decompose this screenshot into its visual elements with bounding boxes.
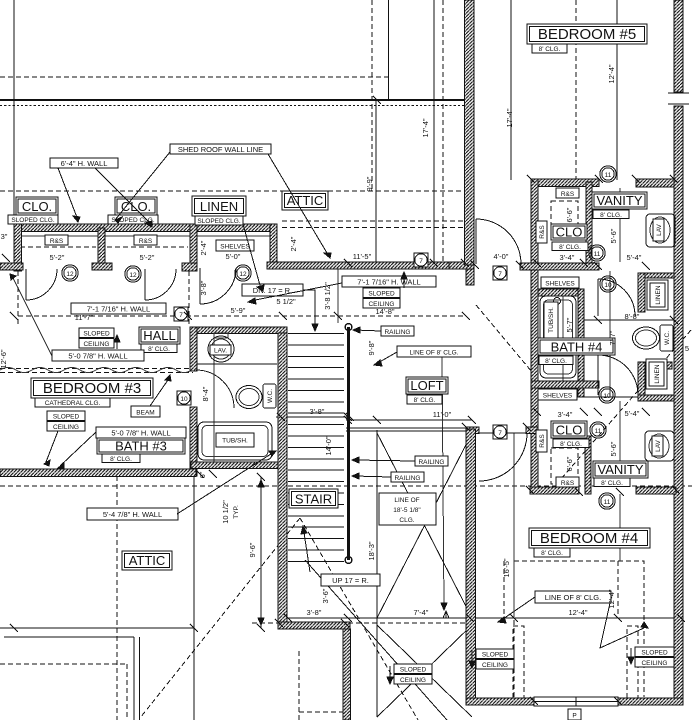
keynote 12 c: [235, 265, 251, 281]
wall clo bottom: [520, 263, 599, 270]
wall under tub bath3: [191, 462, 278, 469]
label BEDROOM 3: [31, 378, 153, 398]
door bath4 wc upper: [598, 279, 635, 316]
svg-text:5'-6": 5'-6": [609, 441, 618, 456]
svg-text:12: 12: [129, 272, 137, 279]
wire garage rect side: [133, 637, 135, 720]
svg-text:7'-1 7/16" H. WALL: 7'-1 7/16" H. WALL: [87, 305, 150, 314]
keynote 11 top: [600, 166, 616, 182]
svg-text:3'-8": 3'-8": [310, 407, 325, 416]
svg-text:10: 10: [603, 393, 611, 400]
dashed closet flank x189: [188, 271, 190, 327]
wall outer right upper: [674, 0, 683, 92]
svg-text:CEILING: CEILING: [482, 662, 508, 669]
leader 5-4wall: [177, 452, 274, 514]
dashed shelf rect clo bottom: [551, 448, 578, 484]
svg-text:RAILING: RAILING: [384, 329, 410, 336]
dashed vertical x117: [116, 476, 118, 720]
svg-text:18'-3": 18'-3": [367, 541, 376, 560]
wall stair west: [278, 333, 287, 623]
svg-text:R&S: R&S: [539, 434, 546, 448]
wire leader dn nosing: [302, 290, 315, 331]
wall stair bottom: [278, 622, 350, 629]
svg-text:8' CLG.: 8' CLG.: [539, 46, 561, 53]
label RAILING 2: [415, 456, 448, 466]
wall hall north seg1: [0, 263, 23, 270]
label CLO.1: [16, 197, 58, 215]
leader 5-0b: [60, 432, 96, 466]
label R&S 2: [134, 235, 157, 245]
wire dim x261: [260, 477, 262, 628]
svg-text:VANITY: VANITY: [597, 193, 643, 208]
svg-text:5'-4": 5'-4": [627, 253, 642, 262]
svg-text:9'-9": 9'-9": [365, 176, 374, 191]
svg-text:BEDROOM #4: BEDROOM #4: [540, 530, 638, 547]
label 8 CLG clo2: [553, 439, 589, 448]
keynote 11 mid: [589, 245, 605, 261]
keynote 7 bedroom4: [493, 425, 507, 439]
wall bottom right of window: [618, 698, 683, 705]
label BEDROOM 4: [529, 528, 650, 548]
keynote 7 loft: [414, 253, 428, 267]
leader 6-4 b: [95, 168, 152, 225]
label CATHEDRAL CLG: [35, 398, 110, 407]
label 8 CLG b5: [532, 44, 567, 53]
wire dim x214: [213, 332, 215, 468]
wire dim ext x514: [513, 433, 515, 617]
wire wc line bath4: [584, 319, 674, 321]
wall closet divider: [98, 228, 105, 264]
svg-text:8' CLG.: 8' CLG.: [148, 346, 170, 353]
wall tub partition: [578, 289, 584, 397]
svg-text:5'-2": 5'-2": [140, 253, 155, 262]
svg-text:R&S: R&S: [561, 480, 575, 487]
wire dim line y628: [0, 627, 194, 629]
label LOFT: [406, 377, 448, 394]
dashed chase left: [513, 626, 524, 699]
door hall-bath4 corridor: [476, 219, 521, 264]
svg-text:LINE OF 8' CLG.: LINE OF 8' CLG.: [410, 350, 459, 357]
dashed dim line y316: [18, 315, 466, 317]
svg-text:SLOPED: SLOPED: [83, 331, 110, 338]
LEADERS: [10, 152, 648, 684]
svg-text:P: P: [572, 713, 576, 720]
svg-text:5'-0 7/8" H. WALL: 5'-0 7/8" H. WALL: [68, 352, 127, 361]
dashed line y227: [282, 227, 466, 229]
wire vertical x388: [388, 0, 390, 100]
dashed roof hip right: [300, 518, 418, 720]
svg-text:LINE OF 8' CLG.: LINE OF 8' CLG.: [545, 593, 601, 602]
leader lineof b4 right: [600, 603, 644, 648]
wire dim line y417 stair: [276, 416, 350, 418]
svg-text:8' CLG.: 8' CLG.: [559, 244, 581, 251]
wall above shelves2: [531, 381, 599, 388]
svg-text:12'-4": 12'-4": [607, 589, 616, 608]
svg-text:CEILING: CEILING: [400, 677, 426, 684]
svg-text:CLO.: CLO.: [22, 199, 52, 214]
leader lineof loft: [376, 352, 397, 364]
svg-text:2'-4": 2'-4": [289, 236, 298, 251]
dashed line y105: [0, 105, 474, 107]
wall closet back top: [14, 224, 277, 232]
svg-text:7'-7": 7'-7": [608, 330, 617, 345]
dashed x127: [126, 664, 128, 720]
label ATTIC bottom: [122, 551, 172, 570]
keynote 10 bath4: [600, 276, 616, 292]
label SHED ROOF WALL LINE: [170, 144, 271, 154]
svg-text:LINE OF: LINE OF: [394, 497, 419, 504]
svg-text:SLOPED: SLOPED: [400, 667, 427, 674]
wire wc line2 bath4: [584, 396, 638, 398]
leader arrow up stair: [301, 526, 307, 534]
wire leader line-of-clg loft: [442, 357, 444, 610]
label SLOPED CEILING loft: [363, 288, 400, 298]
label 8 CLG v2: [594, 478, 630, 487]
dashed line y486: [0, 485, 692, 487]
label CLO top: [551, 224, 587, 240]
svg-text:11: 11: [605, 172, 612, 179]
dashed ext x618: [617, 561, 619, 617]
label SLOPED CEILING b4L: [476, 649, 514, 659]
svg-text:3": 3": [1, 232, 8, 241]
wall hall west upper: [190, 327, 197, 371]
label R&S vanity1: [556, 188, 579, 198]
label BATH 4: [538, 338, 615, 355]
svg-text:BEDROOM #5: BEDROOM #5: [538, 26, 636, 43]
wire left vertical line: [13, 0, 15, 226]
svg-text:SLOPED: SLOPED: [368, 291, 395, 298]
keynote 11 bottom: [599, 493, 615, 509]
svg-text:R&S: R&S: [561, 191, 575, 198]
svg-text:12: 12: [239, 271, 247, 278]
keynote 12 a: [62, 265, 78, 281]
svg-text:6'-4" H. WALL: 6'-4" H. WALL: [61, 159, 108, 168]
svg-text:17'-4": 17'-4": [505, 108, 514, 127]
dashed clg line bath4: [476, 305, 532, 372]
svg-text:CLO: CLO: [556, 225, 583, 240]
wire vertical x434: [433, 0, 435, 263]
fixture lav vanity1: [646, 214, 675, 247]
window bottom: [534, 697, 618, 706]
wire dim x610: [609, 271, 611, 397]
fixture lav hall: [208, 336, 234, 362]
wire stair up arrow: [303, 526, 310, 572]
label DN 17 R: [242, 284, 303, 296]
fixture linen2: [646, 359, 667, 389]
svg-text:10: 10: [180, 396, 188, 403]
arrow dim x261 bottom: [258, 618, 264, 625]
svg-text:5'-2": 5'-2": [50, 253, 65, 262]
label 8 CLG b4: [534, 548, 570, 557]
leader lineof b4 left: [500, 597, 535, 621]
wall shelves bottom: [538, 289, 584, 296]
svg-text:3'-6": 3'-6": [321, 588, 330, 603]
wall closet bottom left: [530, 487, 579, 494]
wall clo column left: [531, 179, 538, 494]
label RAILING 1: [381, 326, 414, 336]
svg-text:7: 7: [419, 258, 423, 265]
svg-text:5 1/2": 5 1/2": [276, 297, 296, 306]
svg-text:5'-7": 5'-7": [565, 317, 574, 332]
label LINE OF 8 CLG loft: [397, 346, 471, 357]
wire garage rect side2: [139, 637, 141, 720]
wire vertical x194: [193, 476, 195, 720]
fixture linen1: [647, 280, 668, 310]
label LINE OF 8 CLG b4: [535, 591, 611, 603]
svg-text:8' CLG.: 8' CLG.: [110, 456, 132, 463]
door linen: [200, 268, 236, 304]
label 6-4 H WALL: [50, 158, 118, 168]
svg-text:11'-5": 11'-5": [353, 252, 372, 261]
LABELS-RIGHT: [476, 24, 674, 720]
label SLOPED CEILING b4R: [635, 647, 674, 657]
keynote 10 clo2: [599, 387, 615, 403]
svg-text:10 1/2": 10 1/2": [221, 500, 230, 524]
svg-text:R&S: R&S: [539, 225, 546, 239]
svg-text:LINEN: LINEN: [654, 364, 661, 383]
svg-text:5'-0": 5'-0": [226, 252, 241, 261]
keynote 7 a: [174, 307, 188, 321]
svg-text:TUB/SH.: TUB/SH.: [222, 438, 248, 445]
wall bottom left of window: [466, 698, 534, 705]
svg-text:VANITY: VANITY: [598, 462, 644, 477]
leader arrow dn: [312, 324, 318, 331]
label 8 CLG v1: [593, 210, 629, 219]
label R&S rot clo2: [536, 430, 547, 452]
wire counter edge hall lav: [197, 363, 277, 365]
FIXTURES: [198, 93, 689, 706]
label LINE OF 18-5 CLG: [379, 493, 436, 525]
svg-text:14'-0": 14'-0": [324, 436, 333, 455]
dashed y712: [299, 711, 344, 713]
svg-text:R&S: R&S: [139, 238, 153, 245]
dashed shelf rect clo top: [551, 201, 578, 239]
dashed roof line right: [560, 330, 691, 480]
svg-text:SHELVES: SHELVES: [543, 393, 573, 400]
wire dim line y618: [288, 617, 681, 619]
arrow sloped b4R: [630, 648, 632, 662]
label BATH 3: [97, 438, 185, 454]
wall vanity top: [531, 179, 599, 187]
wall closet left: [14, 224, 22, 271]
label 5-4 H WALL: [87, 508, 178, 520]
leader 6-4 a: [58, 168, 78, 220]
RAILINGS: [345, 324, 472, 564]
wall hall north pier: [92, 263, 112, 270]
svg-text:18'-5 1/8": 18'-5 1/8": [393, 507, 421, 514]
fixture toilet bath3: [236, 386, 262, 409]
svg-text:W.C.: W.C.: [664, 331, 671, 345]
LABELS-LEFT: [8, 144, 380, 586]
label SLOPED CLG.2: [108, 215, 158, 224]
svg-text:7: 7: [498, 430, 502, 437]
wire loft open edge x377: [376, 430, 378, 717]
label 5-0 H WALL b: [96, 427, 186, 438]
label 5-0 H WALL a: [52, 350, 144, 361]
dashed y664: [0, 663, 127, 665]
label CLO.2: [115, 197, 157, 215]
label ATTIC top: [282, 191, 328, 210]
wall loft east: [466, 429, 476, 705]
label VANITY 2: [593, 461, 648, 478]
dashed chase right: [627, 626, 638, 699]
wire x-brace lower: [377, 625, 472, 717]
label HALL: [139, 327, 180, 344]
label CLO bottom: [551, 421, 587, 438]
arrow dim x261 top: [258, 480, 264, 487]
svg-text:LAV.: LAV.: [214, 348, 227, 355]
leader sloped loft up: [403, 274, 405, 288]
dashed rod closet2: [107, 246, 188, 248]
svg-text:8' CLG.: 8' CLG.: [601, 480, 623, 487]
arrow 7-4: [443, 611, 449, 618]
label 8 CLG hall: [141, 344, 177, 353]
svg-text:11: 11: [594, 251, 601, 258]
leader sloped b3: [46, 431, 58, 462]
svg-text:12'-6": 12'-6": [0, 349, 8, 368]
svg-text:SLOPED: SLOPED: [53, 414, 80, 421]
label 7-1 H WALL loft: [342, 276, 436, 287]
svg-text:SHELVES: SHELVES: [545, 281, 575, 288]
svg-text:6'-6": 6'-6": [565, 207, 574, 222]
svg-text:STAIR: STAIR: [295, 492, 332, 507]
svg-text:7: 7: [179, 312, 183, 319]
dashed vertical x576: [575, 0, 577, 179]
svg-text:5'-4 7/8" H. WALL: 5'-4 7/8" H. WALL: [103, 510, 162, 519]
svg-text:BEAM: BEAM: [136, 410, 154, 417]
label VANITY 1: [592, 192, 647, 209]
wire break squiggle: [0, 368, 192, 373]
wall hall north pier2: [182, 263, 197, 271]
leader arrow lineof: [441, 603, 447, 610]
svg-text:14'-8": 14'-8": [375, 307, 394, 316]
wall closet bottom right: [636, 487, 676, 494]
label 8 CLG loft: [407, 395, 442, 404]
break line y370: [0, 368, 193, 370]
label SHELVES clo2: [538, 389, 577, 400]
arrow sloped b4L: [471, 650, 473, 666]
svg-text:SLOPED: SLOPED: [482, 652, 509, 659]
svg-text:8'-8": 8'-8": [625, 312, 640, 321]
wire horizontal solid y100: [0, 99, 466, 101]
svg-text:5'-4": 5'-4": [625, 409, 640, 418]
wall outer right main: [674, 106, 683, 705]
svg-text:LAV: LAV: [655, 439, 662, 451]
leader shed roof left: [115, 152, 170, 220]
door bath4 wc lower: [598, 355, 638, 395]
wire shelf edge closet2: [105, 235, 190, 237]
railing loft edge: [346, 427, 472, 429]
svg-text:11'-7": 11'-7": [75, 313, 94, 322]
dashed rod closet1: [20, 246, 96, 248]
svg-text:17'-4": 17'-4": [421, 118, 430, 137]
svg-text:HALL: HALL: [143, 328, 176, 343]
svg-text:UP 17 = R.: UP 17 = R.: [332, 576, 369, 585]
label SLOPED CEILING hall: [79, 328, 114, 338]
wire shelf edge closet1: [21, 235, 98, 237]
label SLOPED CEILING b3: [47, 411, 85, 421]
label 7-1 H WALL: [71, 303, 166, 314]
svg-text:2'-4": 2'-4": [199, 240, 208, 255]
svg-text:CEILING: CEILING: [641, 660, 667, 667]
door closet1: [26, 269, 57, 300]
leader beam: [150, 377, 170, 406]
svg-text:8' CLG.: 8' CLG.: [545, 358, 567, 365]
dashed vertical x299: [298, 651, 300, 720]
wall linen niche2: [638, 362, 672, 369]
label P box: [568, 709, 581, 720]
label SHELVES linen: [216, 240, 254, 251]
keynote 11 clo2: [590, 422, 606, 438]
label R&S 1: [45, 235, 68, 245]
wall linen left: [190, 224, 197, 271]
svg-text:SLOPED CLG.: SLOPED CLG.: [197, 218, 241, 225]
wire vertical x511: [510, 0, 512, 180]
svg-text:9'-6": 9'-6": [248, 542, 257, 557]
svg-text:12'-4": 12'-4": [568, 608, 587, 617]
wall stair east lower: [343, 629, 351, 720]
dashed roof hip left: [140, 518, 300, 718]
wall bedroom5 left: [465, 0, 475, 265]
svg-text:ATTIC: ATTIC: [129, 553, 166, 568]
wire shelf edge linen: [197, 235, 270, 237]
door bedroom4 upper: [479, 433, 527, 481]
label LINEN: [192, 196, 246, 216]
STAIR-TREADS: [288, 334, 344, 562]
door bath3: [196, 370, 234, 408]
svg-text:16'-5": 16'-5": [502, 558, 511, 577]
svg-text:8' CLG.: 8' CLG.: [560, 441, 582, 448]
svg-text:RAILING: RAILING: [394, 475, 420, 482]
wall linen niche top: [638, 273, 674, 278]
wire diag line stair base: [305, 560, 447, 720]
arrow sloped hall up: [116, 337, 118, 349]
svg-text:3'-8": 3'-8": [199, 280, 208, 295]
svg-text:10: 10: [604, 282, 612, 289]
wall clo2 partition: [585, 436, 591, 494]
wall hall south: [191, 327, 287, 334]
label BEDROOM 5: [527, 24, 647, 44]
label SLOPED CLG.1: [8, 215, 58, 224]
window right wall: [668, 92, 689, 94]
railing stair bar: [347, 327, 350, 560]
svg-text:CLG.: CLG.: [399, 517, 414, 524]
svg-text:TUB/SH.: TUB/SH.: [548, 307, 555, 333]
leader railing3: [354, 476, 391, 477]
svg-text:11'-0": 11'-0": [433, 410, 452, 419]
DOORS: [26, 219, 638, 561]
leader 7-1 loft: [250, 283, 342, 301]
leader railing1: [355, 330, 381, 331]
svg-text:5'-0 7/8" H. WALL: 5'-0 7/8" H. WALL: [111, 429, 170, 438]
wall hall north long: [267, 262, 457, 269]
svg-text:CLO: CLO: [556, 423, 583, 438]
keynote 10 bedroom3: [177, 391, 191, 405]
label STAIR: [289, 489, 338, 508]
wire ext x338: [337, 269, 339, 323]
svg-text:11: 11: [595, 428, 602, 435]
wall clo partition: [586, 182, 592, 268]
DIMTEXT: [0, 64, 689, 617]
keynote 7 corridor: [493, 266, 507, 280]
svg-text:BATH #4: BATH #4: [551, 340, 603, 355]
wire opening line x620: [619, 494, 621, 561]
dashed line y221: [282, 220, 466, 222]
leader railing2: [354, 460, 415, 461]
dashed dim y623: [252, 622, 474, 624]
wire dim line y420 loft: [346, 419, 472, 421]
svg-text:12'-4": 12'-4": [607, 64, 616, 83]
